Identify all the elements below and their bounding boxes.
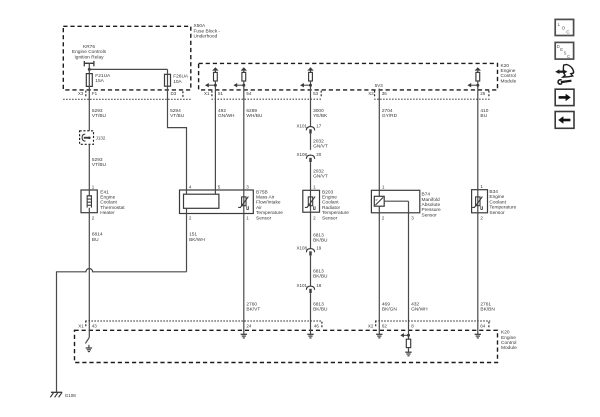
ECM K20 bottom label <box>501 330 517 352</box>
connector tick after 46 <box>321 322 323 328</box>
svg-text:492: 492 <box>218 108 226 114</box>
ground G108 label <box>65 393 77 398</box>
svg-text:X50A: X50A <box>194 23 207 29</box>
wire label 432 GN/WH <box>411 301 428 312</box>
pressure element B74 <box>374 190 408 213</box>
svg-text:Temperature: Temperature <box>322 210 349 216</box>
ECM K20 top outline <box>199 63 498 90</box>
ECM X2 connector row <box>374 98 490 100</box>
svg-text:BU: BU <box>92 237 99 243</box>
connector X108 pin 20 labels <box>296 152 321 157</box>
pin 2 label E41 <box>92 216 95 221</box>
svg-text:2032: 2032 <box>313 168 324 174</box>
pin 2 label B75B <box>189 216 192 221</box>
wire label 2760 BK/VT <box>246 301 260 312</box>
relay KR76 label <box>72 44 107 60</box>
svg-text:Flow/Intake: Flow/Intake <box>256 200 281 206</box>
component E41 box <box>81 190 97 213</box>
wire 469 B74 pin 2 to ECM 62 <box>378 213 380 321</box>
pin X2 label (ECM top) <box>368 91 374 96</box>
svg-text:19: 19 <box>316 245 322 250</box>
svg-text:GN/WH: GN/WH <box>411 307 428 313</box>
svg-text:J132: J132 <box>96 136 106 141</box>
icon button LOC <box>555 19 573 35</box>
svg-text:K20: K20 <box>501 63 510 69</box>
wire label 492 GN/WH <box>218 108 235 119</box>
svg-text:BU: BU <box>480 113 487 119</box>
svg-text:6814: 6814 <box>92 232 103 238</box>
svg-text:BK/BU: BK/BU <box>313 274 328 280</box>
wire label 2761 BK/BN <box>480 301 495 312</box>
svg-text:BK/VT: BK/VT <box>246 307 260 313</box>
pin 46 label <box>314 323 320 328</box>
ECM K20 bottom outline <box>75 330 498 362</box>
svg-text:6289: 6289 <box>246 108 257 114</box>
ECM internal ground pin 24 <box>241 321 247 338</box>
icon button DESC <box>555 42 573 59</box>
svg-text:Module: Module <box>501 78 517 84</box>
svg-text:2704: 2704 <box>382 108 393 114</box>
wire label 410 BU <box>480 108 488 119</box>
svg-text:F1: F1 <box>92 91 98 96</box>
connector tick X1 top <box>211 91 213 97</box>
svg-text:VT/BU: VT/BU <box>92 113 107 119</box>
ECM pull-up circuit pin 54 <box>233 67 247 90</box>
svg-text:Manifold: Manifold <box>422 197 440 203</box>
connector J132 label <box>96 136 106 141</box>
svg-text:15A: 15A <box>95 78 104 84</box>
pin 3 label B74 <box>411 216 414 221</box>
svg-text:Engine: Engine <box>100 195 115 201</box>
thermistor B34 <box>472 190 482 213</box>
IAT thermistor B75B <box>238 190 248 214</box>
component B34 box <box>472 190 488 213</box>
wire 2760 B75B pin 1 to ECM 24 <box>243 214 245 322</box>
svg-text:Temperature: Temperature <box>256 210 283 216</box>
ECM X1 connector row bottom <box>86 320 323 322</box>
svg-text:Absolute: Absolute <box>422 202 441 208</box>
component B34 label <box>489 189 516 216</box>
connector X108 pin 20 <box>306 155 314 190</box>
wire 6814 E41 to ECM <box>88 213 90 321</box>
svg-text:BK/BN: BK/BN <box>480 307 495 313</box>
icon connector service (arrows and wrench) <box>555 65 573 85</box>
svg-text:Sensor: Sensor <box>489 210 505 216</box>
svg-text:BK/WH: BK/WH <box>189 237 205 243</box>
pin 25 label <box>480 91 486 96</box>
svg-text:B203: B203 <box>322 189 334 195</box>
svg-text:410: 410 <box>480 108 488 114</box>
svg-text:Fuse Block -: Fuse Block - <box>194 28 221 34</box>
wire label 5294 VT/BU <box>170 108 185 119</box>
wire 410 ECM 25 to B34 pin 1 <box>477 90 479 190</box>
wire 492 ECM 51 to B75B pin 5 <box>214 90 216 190</box>
svg-text:C: C <box>567 54 570 59</box>
svg-text:6813: 6813 <box>313 232 324 238</box>
wire 5293 J132 to E41 <box>88 144 90 190</box>
svg-text:Mass Air: Mass Air <box>256 195 275 201</box>
svg-text:20: 20 <box>316 152 322 157</box>
ECM pull-up circuit pin 51 <box>205 67 219 90</box>
heater element E41 <box>87 190 92 213</box>
connector X101 pin 17 labels <box>296 123 321 128</box>
wire 6289 ECM 54 to B75B pin 3 <box>243 90 245 190</box>
svg-text:46: 46 <box>314 323 320 328</box>
svg-text:5293: 5293 <box>92 157 103 163</box>
component B203 label <box>322 189 349 221</box>
pin 2 label B203 <box>313 216 316 221</box>
svg-text:469: 469 <box>382 301 390 307</box>
icon button back arrow <box>555 112 574 129</box>
svg-text:X2: X2 <box>368 323 374 328</box>
svg-text:2761: 2761 <box>480 301 491 307</box>
svg-text:Engine: Engine <box>322 195 337 201</box>
svg-text:B75B: B75B <box>256 189 268 195</box>
svg-text:BK/BU: BK/BU <box>313 307 328 313</box>
fuse block connector row <box>63 98 191 100</box>
svg-text:24: 24 <box>246 323 252 328</box>
svg-text:BK/GN: BK/GN <box>382 307 397 313</box>
wire relay to fuse F26UA <box>89 69 167 74</box>
svg-text:Air: Air <box>256 205 262 211</box>
pin 1 label B203 <box>313 184 316 189</box>
ECM K20 top label <box>501 63 517 85</box>
svg-text:YE/BK: YE/BK <box>313 113 328 119</box>
svg-text:WH/BU: WH/BU <box>246 113 263 119</box>
pin 3 label B75B <box>246 184 249 189</box>
wire 5294 fuse D3 to B75B pin 4 <box>168 86 187 190</box>
pin 4 label B75B <box>189 184 192 189</box>
svg-text:Coolant: Coolant <box>100 200 117 206</box>
svg-text:F26UA: F26UA <box>173 74 189 80</box>
svg-text:Pressure: Pressure <box>422 207 442 213</box>
connector X101 pin 17 <box>306 127 314 150</box>
svg-text:B74: B74 <box>422 192 431 198</box>
pin 24 label <box>246 323 252 328</box>
pin D3 label <box>171 91 177 96</box>
component B74 box <box>371 190 419 213</box>
wire label 6813 BK/BU upper <box>313 232 328 243</box>
pin X2 label (ECM bottom) <box>368 323 374 328</box>
ECM X1 connector row <box>212 98 323 100</box>
svg-text:VT/BU: VT/BU <box>170 113 185 119</box>
svg-text:Radiator: Radiator <box>322 205 341 211</box>
relay KR76 contact stub <box>84 61 94 70</box>
icon button next arrow <box>555 89 574 105</box>
wire 2704 ECM 36 to B74 pin 1 <box>378 89 380 191</box>
thermistor B203 <box>305 190 315 212</box>
ECM internal ground pin 62 <box>376 321 382 338</box>
fuse block X50A outline <box>63 26 191 90</box>
pin 1 label B75B <box>246 216 249 221</box>
svg-text:432: 432 <box>411 301 419 307</box>
wire label 6814 BU <box>92 232 103 243</box>
svg-text:53: 53 <box>313 91 319 96</box>
pin 53 label <box>313 91 319 96</box>
connector X101 pin 18 <box>306 286 314 321</box>
pin 1 label B74 <box>382 184 385 189</box>
node relay output junction <box>88 68 91 71</box>
svg-text:54: 54 <box>246 91 252 96</box>
svg-text:Engine Controls: Engine Controls <box>72 49 107 55</box>
svg-text:K20: K20 <box>501 330 510 336</box>
fuse F26UA <box>165 74 171 86</box>
pin 5 label B75B <box>218 184 221 189</box>
ECM internal circuit pin 8 <box>400 321 411 356</box>
svg-text:25: 25 <box>480 91 486 96</box>
svg-text:Ignition Relay: Ignition Relay <box>74 54 104 60</box>
svg-text:Engine: Engine <box>501 68 516 74</box>
svg-text:Control: Control <box>501 73 516 79</box>
ground G108 symbol <box>50 392 62 397</box>
fuse block X50A label <box>194 23 221 39</box>
connector X108 pin 19 <box>306 249 314 286</box>
wire 2761 B34 pin 2 to ECM 64 <box>477 213 479 321</box>
wire label 3000 YE/BK <box>313 108 328 119</box>
pin 2 label B74 <box>382 216 385 221</box>
connector tick after 25 <box>488 91 490 97</box>
ECM pull-up circuit pin 25 <box>467 67 481 90</box>
pin 43 label <box>92 323 98 328</box>
pin 51 label <box>218 91 224 96</box>
connector J132 box <box>80 131 94 145</box>
svg-text:Engine: Engine <box>489 194 504 200</box>
pin X3 label <box>78 91 84 96</box>
svg-text:18: 18 <box>316 283 322 288</box>
pin 2 label B34 <box>480 216 483 221</box>
component B75B label <box>256 189 283 221</box>
wire label 5293 VT/BU upper <box>92 108 107 119</box>
pin X1 label (ECM bottom) <box>78 323 84 328</box>
svg-text:6813: 6813 <box>313 268 324 274</box>
component B75B box <box>180 190 254 214</box>
wire label 5293 VT/BU lower <box>92 157 107 168</box>
svg-text:E41: E41 <box>100 189 109 195</box>
svg-text:2760: 2760 <box>246 301 257 307</box>
svg-text:Engine: Engine <box>501 335 516 341</box>
svg-text:Underhood: Underhood <box>194 34 218 40</box>
pin 1 label B34 <box>480 184 483 189</box>
MAF element B75B <box>184 190 219 214</box>
wire label 6289 WH/BU <box>246 108 263 119</box>
svg-text:X108: X108 <box>296 152 307 157</box>
component B74 label <box>422 192 442 219</box>
svg-text:3000: 3000 <box>313 108 324 114</box>
connector tick X2 bottom <box>375 321 377 327</box>
svg-text:Module: Module <box>501 345 517 351</box>
svg-text:P: P <box>376 198 378 202</box>
svg-text:GN/WH: GN/WH <box>218 113 235 119</box>
svg-text:GY/RD: GY/RD <box>382 113 398 119</box>
svg-text:F21UA: F21UA <box>95 73 111 79</box>
svg-text:Heater: Heater <box>100 210 115 216</box>
svg-text:X1: X1 <box>78 323 84 328</box>
svg-text:6813: 6813 <box>313 301 324 307</box>
ECM internal ground pin 43 <box>85 321 92 352</box>
svg-text:5293: 5293 <box>92 108 103 114</box>
pin 64 label <box>480 323 486 328</box>
svg-text:BK/BU: BK/BU <box>313 238 328 244</box>
svg-text:Thermostat: Thermostat <box>100 205 125 211</box>
pin X1 label (ECM top) <box>204 91 210 96</box>
connector tick after 64 <box>488 322 490 328</box>
svg-text:VT/BU: VT/BU <box>92 162 107 168</box>
svg-text:Coolant: Coolant <box>322 200 339 206</box>
wire 5293 fuse F1 to J132 <box>88 86 90 130</box>
svg-text:Temperature: Temperature <box>489 205 516 211</box>
wire 432 B74 pin 3 to ECM 8 <box>408 213 410 321</box>
svg-text:17: 17 <box>316 123 322 128</box>
svg-text:Coolant: Coolant <box>489 199 506 205</box>
svg-text:Sensor: Sensor <box>422 212 438 218</box>
svg-text:D3: D3 <box>171 91 177 96</box>
component E41 label <box>100 189 125 216</box>
connector tick D3 <box>182 91 184 97</box>
pin 8 label <box>411 323 414 328</box>
wire label 6813 BK/BU middle <box>313 268 328 279</box>
svg-text:X2: X2 <box>368 91 374 96</box>
svg-text:KR76: KR76 <box>83 44 95 50</box>
svg-text:G108: G108 <box>65 393 77 398</box>
svg-text:2032: 2032 <box>313 138 324 144</box>
fuse F21UA <box>86 74 92 87</box>
svg-text:151: 151 <box>189 232 197 238</box>
svg-text:GN/VT: GN/VT <box>313 144 328 150</box>
svg-text:5V3: 5V3 <box>375 83 384 88</box>
wire label 2032 GN/VT upper <box>313 138 328 149</box>
svg-text:51: 51 <box>218 91 224 96</box>
svg-text:X1: X1 <box>204 91 210 96</box>
ECM X2 connector row bottom <box>375 320 490 322</box>
connector tick X1 bottom <box>85 321 87 327</box>
svg-text:X101: X101 <box>296 123 307 128</box>
svg-text:5294: 5294 <box>170 108 181 114</box>
wire 6813 B203 pin 2 to X108 <box>310 212 312 248</box>
wire relay to fuse F21UA <box>88 69 90 73</box>
svg-text:X3: X3 <box>78 91 84 96</box>
pin 54 label <box>246 91 252 96</box>
pin 62 label <box>382 323 388 328</box>
connector X101 pin 18 labels <box>296 283 321 288</box>
wire 151 B75B pin 2 to ground bus <box>186 214 188 272</box>
connector tick X2 top <box>374 91 376 97</box>
wire label 2704 GY/RD <box>382 108 398 119</box>
wire label 6813 BK/BU lower <box>313 301 328 312</box>
net 5V3 label <box>375 83 384 88</box>
svg-text:X101: X101 <box>296 283 307 288</box>
component B203 box <box>303 190 320 212</box>
svg-text:Sensor: Sensor <box>322 215 338 221</box>
svg-text:B34: B34 <box>489 189 498 195</box>
svg-text:36: 36 <box>382 91 388 96</box>
ECM internal ground pin 46 <box>307 321 313 338</box>
connector J132 symbol <box>82 134 91 141</box>
ECM pull-up circuit pin 53 <box>300 67 314 90</box>
ECM internal ground pin 64 <box>475 321 481 338</box>
connector tick X3 <box>85 91 87 97</box>
connector X108 pin 19 labels <box>296 245 321 250</box>
svg-text:Sensor: Sensor <box>256 215 272 221</box>
svg-text:X108: X108 <box>296 245 307 250</box>
svg-text:Control: Control <box>501 340 516 346</box>
wire 3000 ECM 53 to X101 <box>310 90 312 127</box>
svg-text:10A: 10A <box>173 79 182 85</box>
fuse F21UA value <box>95 73 111 84</box>
pin 36 label <box>382 91 388 96</box>
fuse F26UA value <box>173 74 189 85</box>
svg-text:64: 64 <box>480 323 486 328</box>
wire label 2032 GN/VT lower <box>313 168 328 179</box>
pin 1 label E41 <box>92 184 95 189</box>
svg-text:O: O <box>562 26 566 31</box>
svg-text:43: 43 <box>92 323 98 328</box>
connector tick after 53 <box>320 91 322 97</box>
svg-text:62: 62 <box>382 323 388 328</box>
ground bus wire with hop <box>57 268 187 392</box>
wire label 469 BK/GN <box>382 301 397 312</box>
pin F1 label <box>92 91 98 96</box>
svg-text:GN/VT: GN/VT <box>313 174 328 180</box>
wire label 151 BK/WH <box>189 232 205 243</box>
